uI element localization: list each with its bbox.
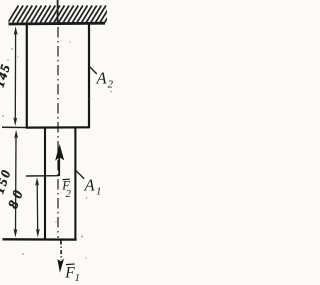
ceiling line <box>9 22 106 26</box>
dimension line 80 <box>35 177 40 237</box>
dimension line 145 <box>13 26 17 126</box>
centerline (dash-dot) <box>57 27 59 238</box>
label F2 <box>61 179 71 200</box>
centerline tick above ceiling <box>57 0 59 24</box>
svg-text:A: A <box>84 176 96 195</box>
wide bar A2: right edge <box>88 25 90 128</box>
label A2 <box>96 69 114 91</box>
scan speckles <box>2 41 112 258</box>
leader line A2 <box>89 66 97 74</box>
force F2 arrow <box>55 144 64 176</box>
bottom line / extension <box>3 238 77 241</box>
label F1 <box>64 264 80 284</box>
label A1 <box>84 176 102 198</box>
left extension line at step level <box>2 126 26 128</box>
force F1 arrow <box>57 241 64 273</box>
svg-text:2: 2 <box>108 79 114 91</box>
extension line at F2 level <box>26 175 59 177</box>
dimension line 150 <box>14 130 19 238</box>
wide bar A2: left edge <box>26 25 28 128</box>
svg-text:A: A <box>96 69 108 88</box>
narrow bar A1: left edge <box>44 128 46 240</box>
ceiling hatching <box>8 6 115 23</box>
svg-text:1: 1 <box>75 272 81 284</box>
narrow bar A1: right edge <box>74 128 76 240</box>
step line (bottom of A2) <box>26 126 90 128</box>
leader line A1 <box>76 171 84 179</box>
svg-text:1: 1 <box>96 186 102 198</box>
svg-text:2: 2 <box>66 188 72 200</box>
